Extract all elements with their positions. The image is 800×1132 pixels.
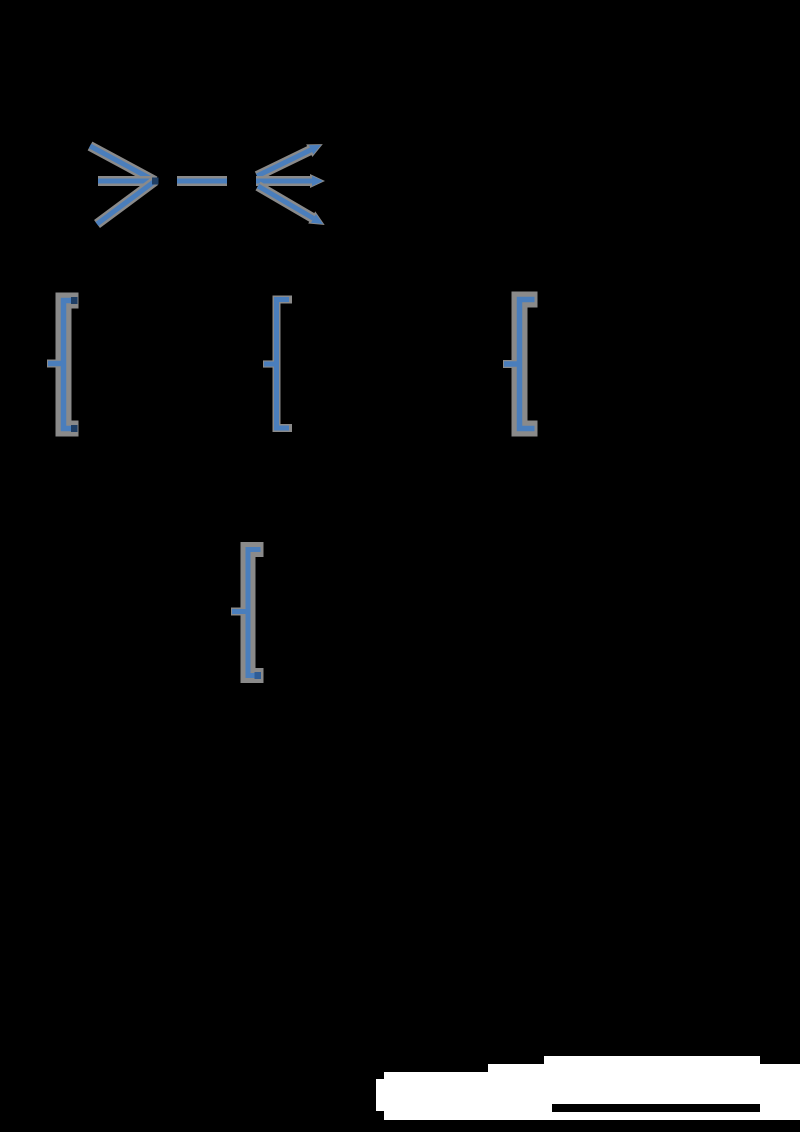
fan-out middle arrow [256, 174, 325, 188]
fan-out lower arrow [258, 186, 325, 225]
bracket B3 (row1 right) [503, 300, 535, 429]
fan-in lower line [97, 181, 155, 224]
white logo blob background [376, 1056, 800, 1120]
fan-in junction square [152, 178, 159, 185]
fan-in middle line [98, 176, 153, 186]
black bar inside blob [552, 1104, 760, 1112]
center dash [177, 176, 227, 186]
fan-in upper line [90, 146, 155, 181]
bracket B2 (row1 middle) [263, 300, 289, 429]
bracket B4 (row2) [231, 550, 261, 680]
bracket B1 (row1 left) [47, 297, 78, 432]
fan-out upper arrow [257, 144, 323, 176]
